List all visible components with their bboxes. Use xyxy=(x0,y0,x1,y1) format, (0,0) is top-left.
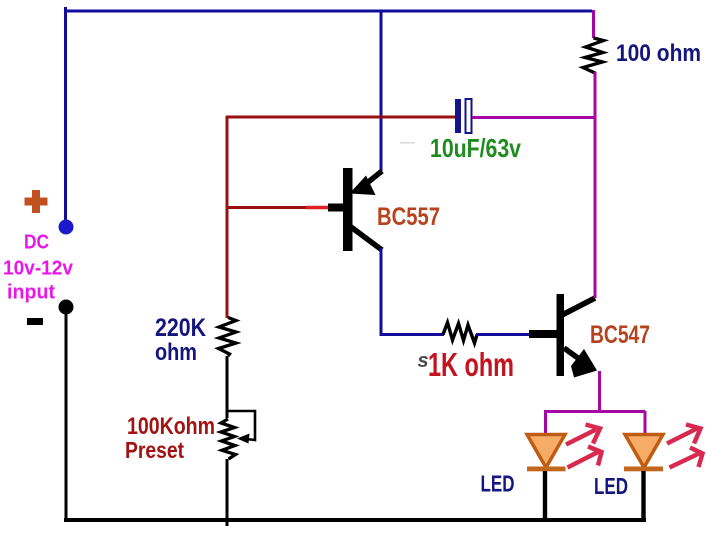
svg-text:220K: 220K xyxy=(155,314,206,342)
svg-text:10v-12v: 10v-12v xyxy=(3,257,74,280)
LED D1 cathode bar xyxy=(527,467,566,472)
transistor Q2 emitter diagonal with outward arrow xyxy=(564,348,589,366)
LED D2 triangle xyxy=(625,435,663,468)
wire left vertical from plus terminal xyxy=(64,7,67,227)
wire left vertical from minus terminal xyxy=(65,307,68,521)
svg-text:1K ohm: 1K ohm xyxy=(428,346,514,383)
wire navy BC557 collector down xyxy=(380,248,383,336)
svg-text:BC557: BC557 xyxy=(377,203,440,231)
LED D2 light arrow lower xyxy=(670,448,703,468)
wire red horizontal to capacitor xyxy=(226,116,456,119)
resistor 1K ohm xyxy=(443,323,477,344)
svg-text:DC: DC xyxy=(24,232,49,254)
wire bright red segment at BC557 base xyxy=(306,206,332,210)
transistor Q1 base stub xyxy=(328,204,343,212)
capacitor C1 right plate xyxy=(466,99,472,133)
wire magenta to LED1 xyxy=(544,411,547,434)
wire bottom ground rail xyxy=(64,518,646,522)
transistor Q2 base bar xyxy=(557,294,565,376)
transistor Q1 emitter diagonal with arrow into base xyxy=(362,171,382,187)
svg-text:LED: LED xyxy=(481,471,515,497)
wire magenta to LED2 xyxy=(644,411,647,434)
LED D1 triangle xyxy=(527,435,565,468)
svg-text:ohm: ohm xyxy=(155,339,197,366)
svg-text:Preset: Preset xyxy=(125,437,184,463)
wire magenta BC547 emitter down xyxy=(598,371,601,413)
svg-text:LED: LED xyxy=(594,473,628,499)
node plus terminal dot xyxy=(59,220,74,235)
svg-text:input: input xyxy=(7,281,55,304)
transistor Q2 BC547 base stub xyxy=(529,330,558,338)
transistor Q2 collector diagonal xyxy=(562,298,595,315)
LED D2 cathode bar xyxy=(624,467,663,472)
resistor 100 ohm xyxy=(583,38,604,74)
transistor Q1 collector diagonal xyxy=(351,227,382,250)
resistor R 220K ohm xyxy=(219,318,237,357)
label plus sign xyxy=(25,190,48,213)
artifact gray dash xyxy=(400,142,415,144)
wire red overlay at crossing with navy vertical xyxy=(371,116,393,119)
wire navy horizontal to 1K resistor xyxy=(381,333,444,336)
svg-text:BC547: BC547 xyxy=(590,321,650,349)
label 220K ohm xyxy=(155,314,206,366)
svg-text:10uF/63v: 10uF/63v xyxy=(430,133,521,163)
wire preset to ground rail xyxy=(226,459,229,526)
LED D1 light arrow lower xyxy=(568,447,602,468)
label DC 10v-12v input xyxy=(3,232,74,304)
wire top positive rail xyxy=(65,10,592,13)
transistor Q1 BC557 base bar xyxy=(343,168,353,251)
svg-text:100 ohm: 100 ohm xyxy=(616,40,701,67)
wire between 220K and preset xyxy=(226,356,229,418)
node minus terminal dot xyxy=(59,300,74,315)
svg-text:s: s xyxy=(418,350,429,372)
preset wiper arm with arrow xyxy=(228,411,255,440)
wire navy from top rail to BC557 emitter xyxy=(380,10,383,171)
wire LED1 to ground xyxy=(543,471,547,521)
label 100Kohm Preset xyxy=(125,413,215,463)
wire red vertical branch xyxy=(226,116,229,318)
resistor preset 100Kohm body xyxy=(221,419,236,459)
wire LED2 to ground xyxy=(641,471,645,522)
wire magenta 100ohm down to BC547 collector xyxy=(594,72,597,298)
label minus sign xyxy=(27,318,43,325)
wire navy 1K to BC547 base xyxy=(476,333,535,336)
capacitor C1 left plate xyxy=(455,99,461,133)
wire magenta capacitor to junction xyxy=(472,116,596,119)
LED D1 light arrow upper xyxy=(566,425,600,445)
wire magenta from rail corner through 100ohm xyxy=(592,10,595,38)
wire magenta LED feed horizontal xyxy=(544,410,645,413)
wire red base feed to BC557 xyxy=(226,206,306,209)
LED D2 light arrow upper xyxy=(667,425,701,444)
svg-text:100Kohm: 100Kohm xyxy=(127,413,215,440)
